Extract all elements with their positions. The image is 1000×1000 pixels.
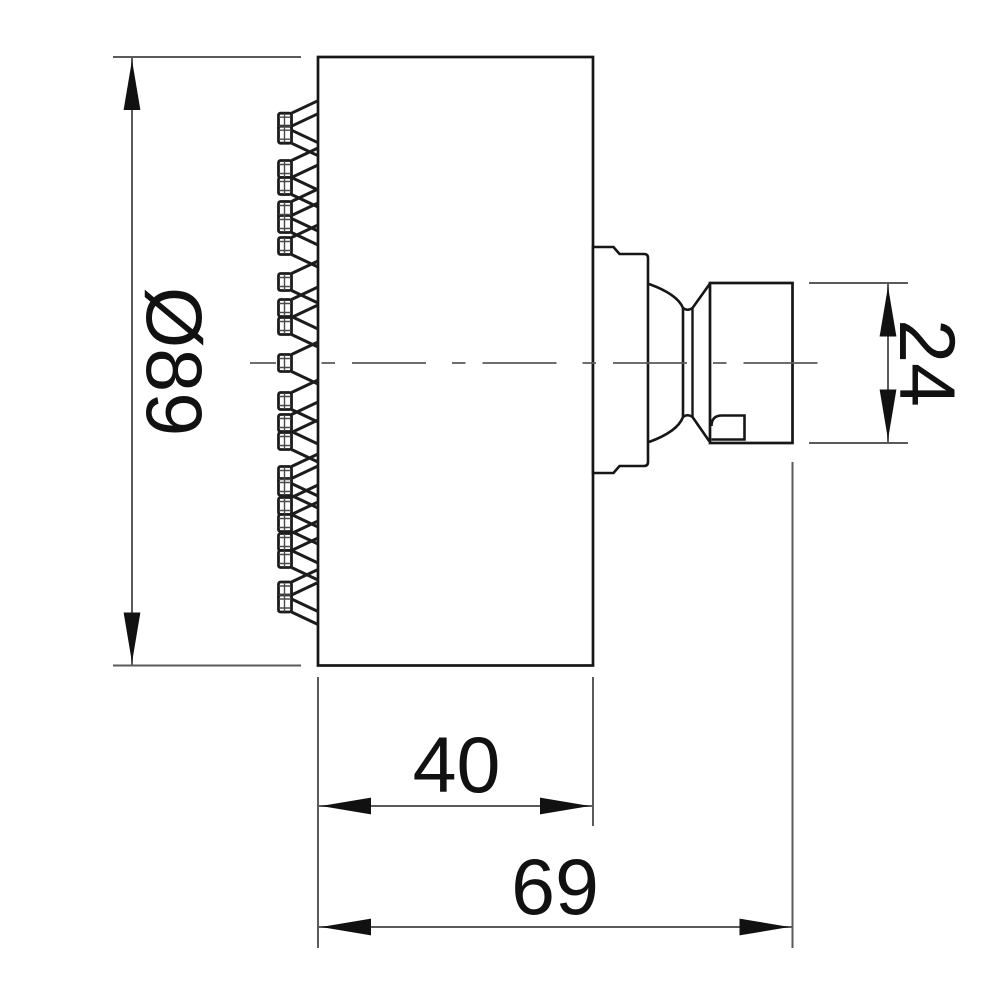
nozzle tip caps xyxy=(279,113,292,612)
mounting collar flange xyxy=(593,247,648,473)
svg-text:40: 40 xyxy=(413,720,501,809)
dim 40: left arrow xyxy=(321,798,371,815)
dim 89: bottom arrow xyxy=(124,613,141,663)
dim 24: top extension line xyxy=(809,282,908,284)
svg-text:Ø89: Ø89 xyxy=(130,287,219,436)
dim 40: right arrow xyxy=(540,798,590,815)
nozzle cone diagonals xyxy=(292,101,319,625)
dim 24: dimension line xyxy=(887,284,889,442)
dim 89: label xyxy=(130,287,219,436)
dim 24: bottom arrow xyxy=(880,390,897,440)
expanding cone to nut xyxy=(693,284,711,442)
nozzle cap inner lines xyxy=(279,114,291,612)
dim 40: dimension line xyxy=(319,805,592,807)
nut slot notch xyxy=(712,416,745,440)
dim 24: bottom extension line xyxy=(809,442,908,444)
dim 69: right extension line xyxy=(792,462,794,948)
svg-text:24: 24 xyxy=(883,319,972,407)
dim 69: label xyxy=(511,842,599,931)
dim 89: top extension line xyxy=(113,56,301,58)
waist ring xyxy=(683,308,693,417)
dim 69: right arrow xyxy=(740,919,790,936)
dim 69: dimension line xyxy=(319,926,792,928)
centerline main dash-dot xyxy=(322,362,826,364)
dim 40: left extension line xyxy=(317,677,319,948)
centerline left stub xyxy=(250,362,276,364)
connector nut xyxy=(710,283,793,443)
dim 69: left arrow xyxy=(321,919,371,936)
dim 24: top arrow xyxy=(880,287,897,337)
dim 40: right extension line xyxy=(592,677,594,826)
dim 40: label xyxy=(413,720,501,809)
dim 89: dimension line xyxy=(131,58,133,665)
svg-text:69: 69 xyxy=(511,842,599,931)
trumpet neck profile xyxy=(649,284,683,442)
dim 89: top arrow xyxy=(124,60,141,110)
dim 24: label xyxy=(883,319,972,407)
dim 89: bottom extension line xyxy=(113,665,301,667)
shower head body xyxy=(318,57,593,666)
